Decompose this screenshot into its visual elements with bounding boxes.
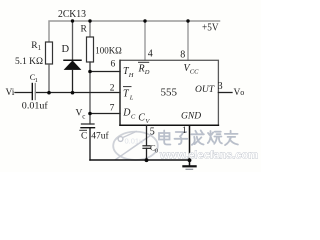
svg-text:H: H	[128, 72, 134, 79]
svg-text:47uf: 47uf	[91, 130, 109, 141]
svg-text:2CK13: 2CK13	[58, 9, 86, 20]
svg-text:C: C	[131, 114, 136, 121]
svg-text:3: 3	[218, 81, 223, 92]
svg-text:5.1 KΩ: 5.1 KΩ	[15, 57, 43, 67]
svg-text:555: 555	[161, 87, 178, 99]
svg-text:o: o	[240, 88, 244, 97]
svg-text:+5V: +5V	[202, 22, 219, 33]
svg-text:CC: CC	[190, 69, 199, 76]
svg-text:GND: GND	[181, 112, 201, 122]
svg-text:c: c	[82, 112, 85, 120]
svg-text:OUT: OUT	[195, 85, 215, 95]
svg-text:C: C	[81, 131, 87, 141]
svg-text:8: 8	[180, 50, 185, 61]
svg-text:C: C	[138, 112, 145, 123]
svg-text:Vi: Vi	[6, 88, 15, 98]
svg-text:1: 1	[182, 126, 187, 136]
svg-text:R: R	[138, 64, 145, 75]
svg-text:6: 6	[111, 59, 116, 69]
svg-text:0.01uf: 0.01uf	[22, 100, 49, 111]
svg-text:L: L	[129, 94, 134, 101]
svg-text:1: 1	[35, 77, 38, 84]
svg-text:D: D	[62, 44, 70, 55]
svg-text:4: 4	[148, 49, 153, 60]
svg-text:D: D	[144, 69, 150, 76]
svg-text:www.elecfans.com: www.elecfans.com	[159, 150, 258, 162]
svg-text:0: 0	[155, 148, 158, 154]
svg-text:5: 5	[150, 127, 155, 138]
svg-text:7: 7	[110, 103, 115, 113]
svg-text:2: 2	[110, 84, 115, 94]
svg-text:1: 1	[38, 44, 42, 52]
svg-text:0.01u: 0.01u	[125, 137, 144, 146]
svg-text:100KΩ: 100KΩ	[95, 46, 122, 56]
svg-text:R: R	[81, 25, 88, 35]
svg-text:D: D	[122, 108, 131, 119]
